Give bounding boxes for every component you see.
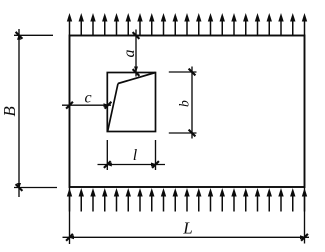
bottom load arrow 3 [90, 188, 95, 212]
dim B tick bottom [16, 184, 23, 191]
dim B line [18, 29, 20, 197]
bottom load arrow 16 [243, 188, 248, 212]
dim b tick bottom [189, 130, 196, 137]
dim l extension line right [155, 140, 157, 170]
svg-text:L: L [182, 218, 192, 237]
bottom load arrow 9 [161, 188, 166, 212]
dim a line [135, 30, 137, 77]
top load arrow 15 [231, 13, 236, 36]
crack wedge top slant [118, 73, 156, 84]
bottom load arrow 1 [67, 188, 72, 212]
crack wedge left slant [108, 84, 118, 132]
dim b line [191, 67, 193, 139]
top load arrow 16 [243, 13, 248, 36]
bottom load arrow 10 [173, 188, 178, 212]
plate outline [70, 36, 305, 188]
bottom load arrow 14 [220, 188, 225, 212]
bottom load arrow 5 [114, 188, 119, 212]
bottom load arrow 18 [267, 188, 272, 212]
dim a tick bottom [133, 69, 140, 76]
svg-text:b: b [176, 100, 191, 107]
dim c tick left [66, 102, 73, 109]
bottom load arrow 15 [231, 188, 236, 212]
top load arrow 19 [278, 13, 283, 36]
top load arrow 9 [161, 13, 166, 36]
top load arrow 8 [149, 13, 154, 36]
bottom load arrow 21 [302, 188, 307, 212]
bottom load arrow 20 [290, 188, 295, 212]
dim L line [63, 236, 310, 238]
svg-text:c: c [84, 90, 91, 107]
dim c line [62, 104, 111, 106]
top load arrow 12 [196, 13, 201, 36]
dim b tick top [189, 69, 196, 76]
top load arrow 5 [114, 13, 119, 36]
dim B extension line top [14, 34, 53, 36]
crack hole rectangle [107, 73, 155, 132]
bottom load arrow 7 [137, 188, 142, 212]
top load arrow 18 [267, 13, 272, 36]
dim L tick right [301, 234, 308, 241]
top load arrow 13 [208, 13, 213, 36]
dim l tick right [152, 161, 159, 168]
top load arrow 21 [302, 13, 307, 36]
dim l extension line left [106, 140, 108, 170]
dim l line [98, 164, 166, 166]
top load arrow 1 [67, 13, 72, 36]
dim L extension line right [304, 187, 306, 244]
bottom load arrow 19 [278, 188, 283, 212]
dim L tick left [66, 234, 73, 241]
dim a tick top [133, 32, 140, 39]
dim b extension line top [169, 71, 197, 73]
dim B tick top [16, 32, 23, 39]
top load arrow 2 [79, 13, 84, 36]
top load arrow 14 [220, 13, 225, 36]
svg-text:B: B [0, 106, 19, 117]
top load arrow 7 [137, 13, 142, 36]
bottom load arrow 2 [79, 188, 84, 212]
bottom load arrow 17 [255, 188, 260, 212]
svg-text:a: a [121, 50, 138, 58]
bottom load arrow 11 [184, 188, 189, 212]
top load arrow 10 [173, 13, 178, 36]
top load arrow 17 [255, 13, 260, 36]
bottom load arrow 4 [102, 188, 107, 212]
dim B extension line bottom [14, 187, 57, 189]
bottom load arrow 8 [149, 188, 154, 212]
bottom load arrow 13 [208, 188, 213, 212]
top load arrow 4 [102, 13, 107, 36]
bottom load arrow 12 [196, 188, 201, 212]
dim b extension line bottom [169, 132, 197, 134]
bottom load arrow 6 [126, 188, 131, 212]
top load arrow 3 [90, 13, 95, 36]
top load arrow 6 [126, 13, 131, 36]
top load arrow 11 [184, 13, 189, 36]
dim l tick left [104, 161, 111, 168]
svg-text:l: l [133, 147, 138, 164]
dim L extension line left [69, 187, 71, 244]
dim c tick right [105, 102, 112, 109]
top load arrow 20 [290, 13, 295, 36]
